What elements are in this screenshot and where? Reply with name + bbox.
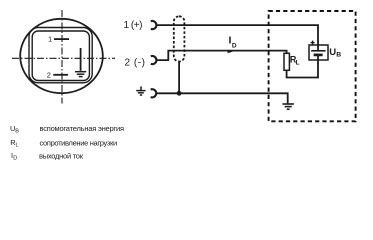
horizontal centerline: [12, 57, 115, 59]
wire RL bottom to battery negative: [287, 60, 318, 78]
svg-text:B: B: [336, 52, 341, 59]
svg-text:2: 2: [47, 70, 51, 79]
pin 2 bar: [53, 74, 68, 76]
svg-text:1 (+): 1 (+): [124, 20, 143, 31]
earth pin ground symbol: [75, 72, 86, 77]
svg-text:вспомогательная энергия: вспомогательная энергия: [40, 124, 125, 133]
ground terminal socket arc: [151, 89, 157, 97]
cable shield capsule: [174, 16, 185, 61]
shield drain wire: [178, 62, 180, 94]
svg-text:сопротивление нагрузки: сопротивление нагрузки: [40, 138, 118, 147]
terminal 1 socket arc: [151, 21, 157, 29]
battery plate long: [311, 50, 325, 52]
battery plate short thick: [314, 54, 323, 57]
wire ground terminal to box ground: [156, 93, 288, 103]
svg-text:1: 1: [48, 35, 52, 44]
resistor RL: [284, 53, 289, 70]
battery wire through box: [317, 45, 319, 51]
svg-text:выходной ток: выходной ток: [39, 151, 84, 160]
connector face outer square: [29, 28, 92, 83]
svg-text:L: L: [16, 143, 19, 149]
svg-text:B: B: [15, 128, 19, 134]
connector face inner square: [32, 31, 89, 81]
battery UB box: [309, 45, 328, 60]
vertical centerline: [61, 10, 63, 104]
current arrow: [228, 50, 234, 54]
box ground symbol: [282, 104, 294, 109]
terminal 2 socket arc: [151, 56, 157, 64]
svg-text:2 (-): 2 (-): [125, 58, 146, 69]
battery plus sign: [311, 41, 315, 45]
connector body ellipse: [20, 19, 103, 93]
instrument boundary dashed box: [269, 11, 356, 121]
svg-text:D: D: [232, 43, 237, 50]
pin 1 bar: [54, 38, 69, 40]
wire terminal1 to battery: [156, 25, 318, 45]
svg-text:D: D: [13, 156, 17, 162]
svg-text:L: L: [296, 60, 300, 67]
ground terminal symbol: [136, 86, 145, 95]
wire terminal2 to RL: [156, 51, 286, 61]
earth pin stroke: [80, 48, 82, 71]
junction dot: [177, 91, 182, 96]
